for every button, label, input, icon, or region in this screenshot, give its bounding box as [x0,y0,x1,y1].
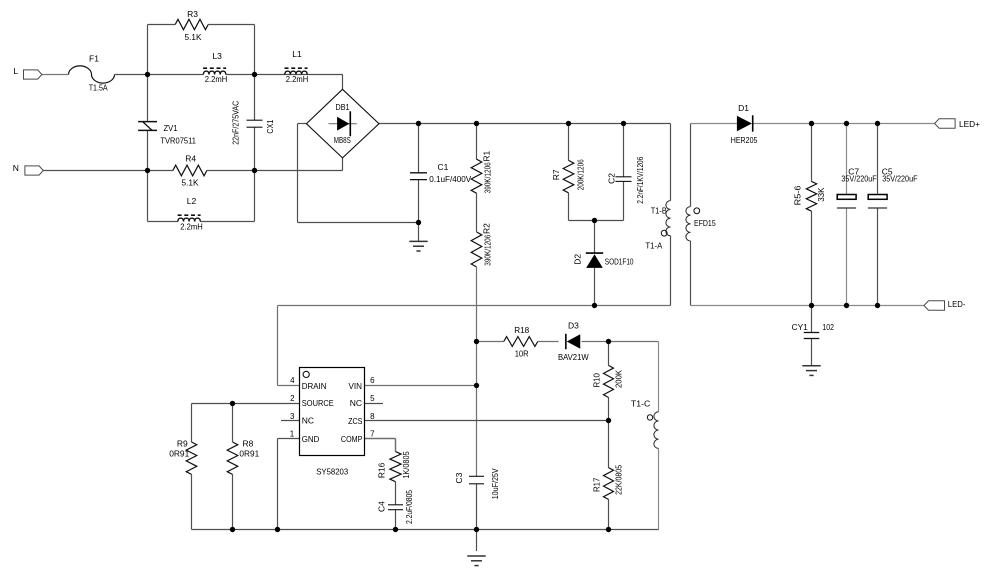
svg-text:5.1K: 5.1K [185,32,202,42]
svg-text:7: 7 [370,429,375,438]
svg-text:BAV21W: BAV21W [558,352,589,362]
svg-text:2.2uF/0805: 2.2uF/0805 [404,490,414,524]
svg-text:R9: R9 [177,439,188,449]
svg-text:R5-6: R5-6 [793,185,803,205]
svg-text:D1: D1 [738,103,749,113]
svg-text:R10: R10 [592,373,602,388]
svg-text:D2: D2 [572,254,582,265]
svg-text:SY58203: SY58203 [316,466,348,476]
svg-text:ZCS: ZCS [348,416,363,426]
svg-text:22nF/275VAC: 22nF/275VAC [230,101,240,145]
svg-text:NC: NC [350,398,362,408]
svg-text:NC: NC [302,416,314,426]
svg-text:1: 1 [290,429,295,438]
svg-text:DRAIN: DRAIN [302,381,327,391]
svg-text:102: 102 [822,322,834,332]
svg-text:R3: R3 [187,9,198,19]
svg-text:ZV1: ZV1 [164,123,178,133]
svg-text:F1: F1 [89,53,99,63]
svg-text:2.2mH: 2.2mH [205,74,228,84]
svg-text:R8: R8 [243,439,254,449]
svg-text:R7: R7 [551,169,561,180]
svg-text:R1: R1 [481,150,491,161]
svg-text:EFD15: EFD15 [694,218,716,228]
svg-text:CY1: CY1 [792,322,808,332]
svg-text:0R91: 0R91 [239,449,259,459]
svg-text:T1-B: T1-B [651,206,667,216]
svg-text:R4: R4 [185,154,196,164]
svg-text:T1-A: T1-A [645,240,662,250]
svg-text:390K/1206: 390K/1206 [483,234,493,265]
svg-text:LED+: LED+ [959,119,980,129]
svg-text:D3: D3 [568,321,579,331]
svg-text:L1: L1 [292,49,302,59]
svg-text:10uF/25V: 10uF/25V [490,468,500,499]
svg-text:6: 6 [370,376,375,385]
svg-text:L2: L2 [187,196,197,206]
svg-text:35V/220uF: 35V/220uF [882,174,917,184]
svg-text:C2: C2 [607,173,617,184]
svg-text:390K/1206: 390K/1206 [483,162,493,193]
svg-text:5.1K: 5.1K [182,178,199,188]
svg-text:MB8S: MB8S [334,135,351,145]
svg-text:T1-C: T1-C [631,399,650,409]
svg-text:200K: 200K [614,370,624,388]
svg-text:R16: R16 [377,462,387,478]
svg-text:LED-: LED- [948,299,966,309]
svg-text:TVR07511: TVR07511 [160,136,196,146]
svg-text:35V/220uF: 35V/220uF [841,174,876,184]
svg-text:0.1uF/400V: 0.1uF/400V [429,174,471,184]
svg-text:COMP: COMP [341,434,363,444]
svg-text:L: L [13,66,18,76]
svg-text:R18: R18 [514,325,529,335]
svg-text:N: N [13,163,19,173]
svg-text:3: 3 [290,412,295,421]
svg-text:L3: L3 [212,51,222,61]
svg-text:C1: C1 [438,162,449,172]
svg-text:4: 4 [290,376,295,385]
svg-text:VIN: VIN [349,381,363,391]
svg-text:T1.5A: T1.5A [89,82,108,92]
svg-text:2.2mH: 2.2mH [180,221,203,231]
svg-text:GND: GND [302,434,320,444]
svg-text:5: 5 [370,394,375,403]
svg-text:1K/0805: 1K/0805 [401,451,411,479]
svg-text:200K/1206: 200K/1206 [576,159,586,190]
svg-text:2.2mH: 2.2mH [286,74,309,84]
svg-text:33K: 33K [816,187,826,202]
svg-text:DB1: DB1 [336,102,350,112]
svg-text:2: 2 [290,394,295,403]
svg-text:SOURCE: SOURCE [302,398,334,408]
svg-text:10R: 10R [515,349,529,359]
svg-text:C4: C4 [377,501,387,512]
svg-text:R2: R2 [481,223,491,234]
svg-text:R17: R17 [592,477,602,492]
svg-text:HER205: HER205 [731,135,758,145]
svg-text:SOD1F10: SOD1F10 [605,257,634,267]
svg-text:0R91: 0R91 [169,449,189,459]
svg-text:2.2nF/1KV/1206: 2.2nF/1KV/1206 [635,156,645,203]
svg-text:22K/0805: 22K/0805 [614,465,624,495]
svg-text:C3: C3 [454,472,464,483]
svg-text:8: 8 [370,412,375,421]
svg-text:CX1: CX1 [265,119,275,133]
